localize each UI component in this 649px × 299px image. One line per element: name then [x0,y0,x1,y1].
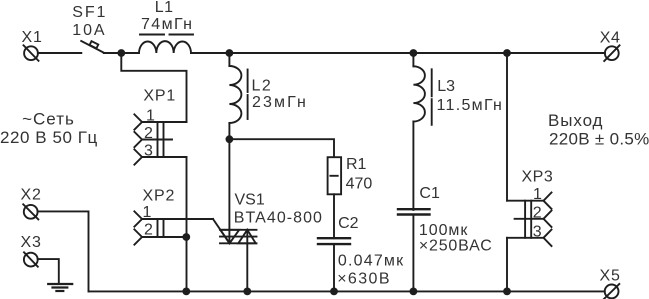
svg-text:2: 2 [144,222,153,239]
node junction at switch output [117,49,125,57]
svg-text:220 В 50 Гц: 220 В 50 Гц [0,128,98,147]
capacitor C1 100uF 250VAC [398,185,493,255]
svg-text:X1: X1 [22,29,43,46]
pin 2 [515,218,544,220]
svg-text:100мк: 100мк [419,222,468,239]
wire SF1 to L1 [104,52,139,54]
inductor L2 23mH [229,53,308,139]
node L2 tap on top rail [226,49,234,57]
wire L1 to X4 (top rail) [191,52,605,54]
pin 3 [507,237,544,239]
wire XP2 pin1 gate diagonal to VS1 [213,219,230,243]
node C1 on bottom rail [410,288,418,296]
pin 1 [142,218,213,220]
wire XP3 pin3 down to bottom rail [506,238,508,292]
node on bottom rail below XP1 [182,288,190,296]
terminal X1 [22,29,43,61]
terminal X2 [21,186,42,219]
svg-text:X2: X2 [21,186,42,203]
svg-text:74мГн: 74мГн [141,16,193,33]
wire VS1 to bottom rail [246,230,248,292]
svg-text:X3: X3 [21,234,42,251]
connector XP1 [134,87,186,164]
node L3 tap on top rail [410,49,418,57]
annotation mains input [0,110,98,148]
node L2 bottom junction [226,135,234,143]
svg-text:XP2: XP2 [143,187,176,204]
connector body bars [157,219,159,237]
svg-text:BTA40-800: BTA40-800 [234,209,323,226]
svg-text:23мГн: 23мГн [252,94,308,111]
svg-text:C1: C1 [419,185,440,202]
svg-text:~Сеть: ~Сеть [22,110,75,129]
svg-text:×630В: ×630В [337,271,391,288]
svg-text:XP1: XP1 [143,87,176,104]
wire X1 to SF1 [38,52,81,54]
wire C2 to bottom rail [333,244,335,291]
bottom rail wire [89,290,605,292]
node XP2 pin2 junction [182,233,190,241]
svg-text:10A: 10A [72,22,106,39]
inductor L3 11.5mH [413,53,503,125]
node C2 on bottom rail [330,288,338,296]
svg-text:×250ВАС: ×250ВАС [419,237,493,254]
svg-text:2: 2 [144,125,153,142]
svg-text:L3: L3 [437,78,455,95]
svg-text:C2: C2 [338,215,359,232]
triac VS1 BTA40-800 [220,191,323,243]
svg-text:1: 1 [143,204,152,221]
breaker SF1 10A [72,4,107,53]
svg-text:X5: X5 [600,267,621,284]
node VS1 on bottom rail [243,288,251,296]
wire X3 to ground [38,259,59,284]
svg-text:470: 470 [346,175,373,192]
svg-text:3: 3 [144,143,153,160]
resistor R1 470 [328,156,373,194]
inductor L1 74mH [139,0,193,53]
connector body bars [524,201,526,238]
terminal X5 [600,267,621,299]
pin 1 [507,200,544,202]
wire top rail to XP3 pin1 [506,53,508,201]
svg-text:2: 2 [533,204,542,221]
svg-text:11.5мГн: 11.5мГн [437,97,504,114]
wire X2 to bottom rail [38,211,89,291]
pin 3 [142,156,187,158]
terminal X4 [600,30,621,62]
terminal X3 [21,234,42,267]
svg-text:XP3: XP3 [522,169,554,186]
svg-text:L1: L1 [155,0,174,16]
pin 1 [142,121,187,123]
connector XP3 [507,169,553,247]
wire L2 to VS1 [228,139,230,242]
svg-text:L2: L2 [252,77,273,94]
node XP3 on bottom rail [503,288,511,296]
annotation output [548,111,649,149]
svg-text:0.047мк: 0.047мк [338,252,404,269]
capacitor C2 0.047uF 630V [318,215,404,288]
connector XP2 [134,187,213,244]
pin 2 [142,236,186,238]
svg-text:1: 1 [146,108,155,125]
svg-text:VS1: VS1 [235,191,265,208]
node XP3 tap on top rail [503,49,511,57]
wire C1 to bottom rail [412,215,414,292]
svg-text:1: 1 [533,186,542,203]
svg-text:R1: R1 [346,156,367,173]
ground [48,284,72,291]
svg-text:3: 3 [533,223,542,240]
wire XP1 pin3 down to bottom rail [186,157,188,291]
svg-text:X4: X4 [600,30,621,47]
connector body bars [157,122,159,157]
wire junction to XP1 pin1 [121,53,186,122]
svg-text:220В ± 0.5%: 220В ± 0.5% [549,130,649,149]
wire R1 to C2 [333,194,335,238]
wire L3 to C1 [412,122,414,210]
svg-text:Выход: Выход [548,111,603,130]
wire L2 junction to R1 [229,139,334,157]
svg-text:SF1: SF1 [72,4,107,21]
pin 2 [142,139,172,141]
